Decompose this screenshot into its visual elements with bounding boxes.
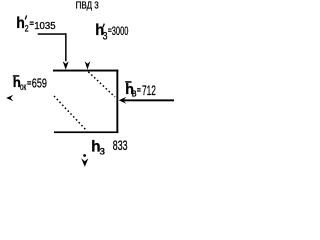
- svg-text:3: 3: [103, 30, 108, 42]
- heater box: bottom edge: [54, 131, 118, 133]
- dotted steam path B (inside box, lower): [54, 96, 87, 131]
- svg-text:712: 712: [142, 83, 156, 99]
- drain inlet arrowhead: [63, 61, 69, 70]
- svg-text:833: 833: [113, 138, 128, 154]
- svg-text:з: з: [100, 144, 106, 158]
- label h'3 = 3000: [95, 22, 128, 43]
- dotted steam path A (inside box, upper): [88, 72, 115, 97]
- drain outlet arrowhead: [81, 158, 88, 167]
- drain outlet dot (below box): [83, 154, 86, 157]
- heater box: right edge: [116, 70, 118, 133]
- svg-text:1035: 1035: [34, 21, 55, 32]
- label h-bar ok = 659 (left): [13, 75, 47, 93]
- label h'2 = 1035: [16, 14, 55, 33]
- svg-text:2: 2: [25, 24, 29, 34]
- svg-text:h: h: [16, 14, 25, 32]
- drain inlet elbow line (from h'2): [38, 33, 67, 35]
- label h_d 833 (bottom): [91, 138, 127, 158]
- svg-text:ок: ок: [20, 80, 26, 92]
- feedwater outlet arrowhead (left): [6, 95, 13, 102]
- heater box: top edge: [53, 70, 118, 72]
- svg-text:3000: 3000: [112, 25, 129, 38]
- steam inlet arrowhead (dotted stream from h'3): [85, 61, 91, 69]
- label h-bar v = 712 (right): [125, 81, 156, 100]
- svg-text:659: 659: [32, 77, 47, 91]
- svg-text:ПВД 3: ПВД 3: [76, 0, 99, 11]
- svg-text:в: в: [132, 88, 137, 100]
- feedwater inlet line (right): [124, 99, 175, 101]
- feedwater inlet arrowhead: [119, 97, 127, 104]
